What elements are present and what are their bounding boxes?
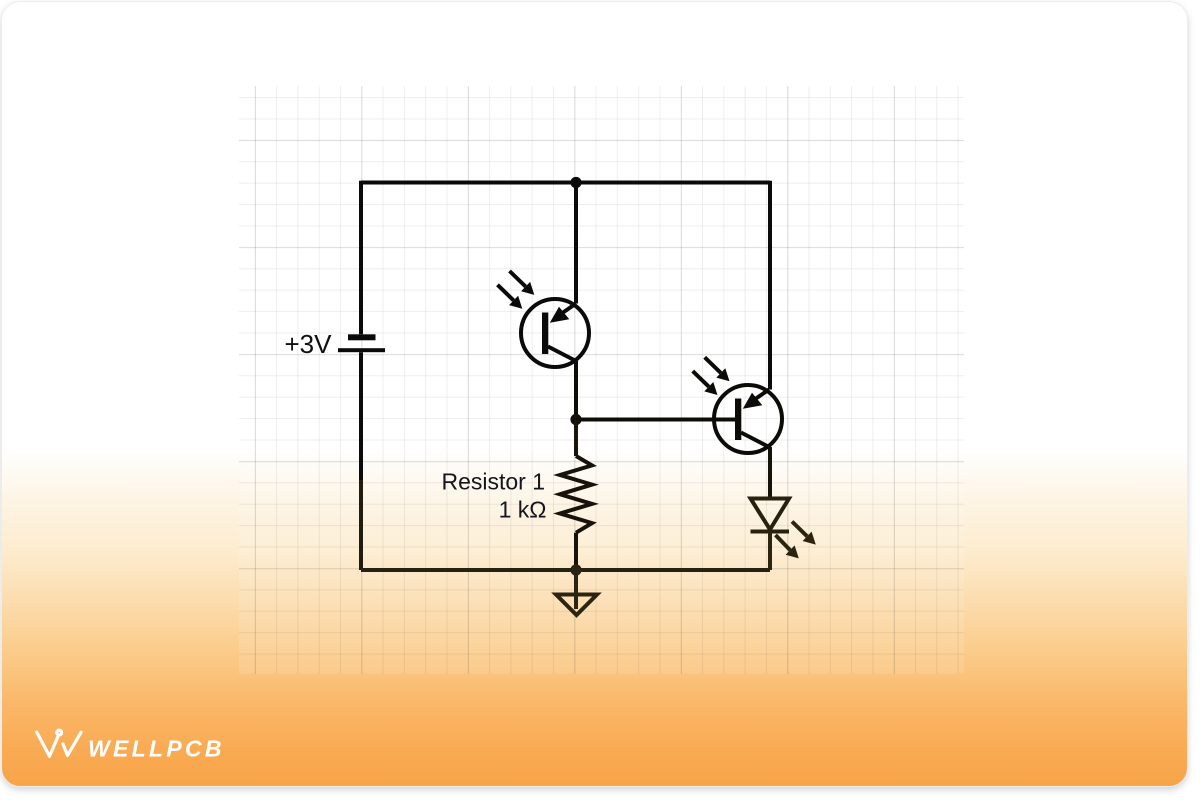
wire bottom rail — [361, 568, 770, 572]
LED D1 triangle — [751, 499, 790, 530]
wire right rail emitter to LED — [768, 447, 772, 499]
wire Q2 base — [576, 418, 735, 422]
wire middle branch upper — [574, 183, 578, 304]
wire right rail upper — [768, 181, 772, 390]
light arrow 1 into Q1 — [510, 271, 535, 295]
svg-text:1 kΩ: 1 kΩ — [499, 497, 547, 523]
light arrow 2 out of LED — [776, 535, 799, 558]
wire left rail upper — [359, 181, 363, 334]
node ground junction — [570, 564, 581, 575]
ground triangle — [556, 595, 597, 616]
node top junction — [570, 177, 581, 188]
wire left rail lower (orange zone) — [359, 480, 363, 570]
svg-text:+3V: +3V — [285, 329, 333, 359]
wire LED to bottom rail — [768, 532, 772, 571]
light arrow 1 into Q2 — [705, 357, 730, 381]
svg-text:WELLPCB: WELLPCB — [88, 736, 225, 762]
schematic grid — [239, 86, 964, 674]
ground stem — [574, 570, 578, 609]
light arrow 2 into Q1 — [498, 285, 523, 309]
light arrow 1 out of LED — [792, 522, 816, 545]
resistor R1 — [560, 420, 592, 571]
phototransistor Q1 collector arrow — [550, 307, 570, 323]
node base junction — [570, 414, 581, 425]
light arrow 2 into Q2 — [693, 371, 718, 395]
phototransistor Q2 base bar — [735, 399, 741, 441]
LED D1 cathode bar — [751, 530, 790, 534]
svg-text:Resistor 1: Resistor 1 — [441, 469, 545, 495]
phototransistor Q1 base bar — [542, 313, 548, 355]
phototransistor Q2 collector arrow — [743, 393, 763, 409]
phototransistor Q2 collector lead — [756, 390, 769, 399]
wire left rail lower (white zone) — [359, 352, 363, 480]
phototransistor Q1 emitter lead — [548, 347, 576, 362]
wire middle branch emitter to node — [574, 361, 578, 420]
battery B1 — [338, 334, 385, 352]
phototransistor Q2 emitter lead — [741, 433, 769, 448]
WELLPCB logo mark — [37, 730, 81, 756]
wire top rail — [361, 181, 770, 185]
phototransistor Q1 collector lead — [563, 304, 576, 313]
phototransistor Q2 circle — [714, 385, 782, 453]
phototransistor Q1 circle — [521, 299, 589, 367]
